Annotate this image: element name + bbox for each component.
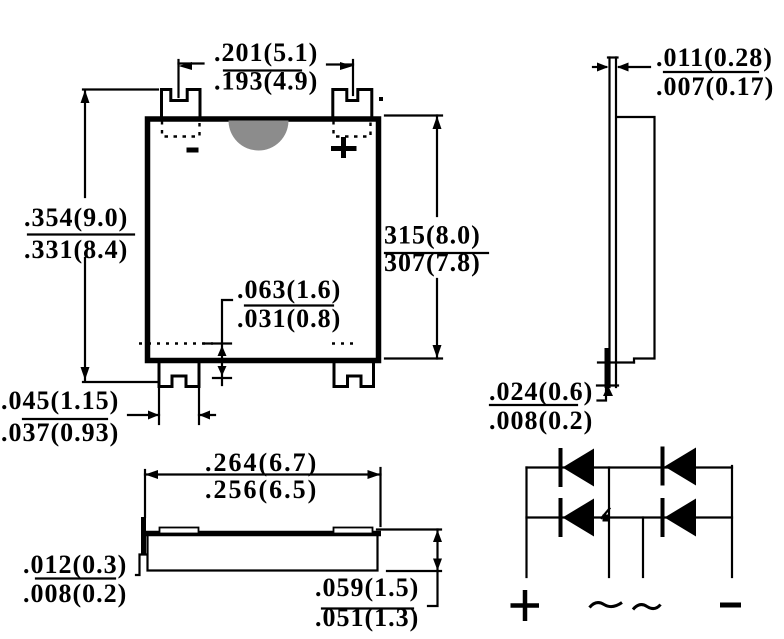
left tab (front view) <box>160 528 199 534</box>
right tab (front view) <box>334 528 373 534</box>
diode D1 triangle <box>563 449 595 487</box>
dim .059/.051 bottom tick <box>387 570 441 572</box>
wire ac node 2 <box>642 518 644 578</box>
ac terminal 1 squiggle <box>590 603 623 608</box>
dim .045/.037 extension lines <box>158 382 160 424</box>
dim 315/307 top tick <box>385 114 442 116</box>
lead foot thick bar <box>605 348 610 388</box>
dim .063/.031 bracket <box>222 300 232 385</box>
diode D3 triangle <box>665 448 697 486</box>
dim .201/.193 extension line left <box>177 60 179 97</box>
lead tab top cap <box>608 56 618 58</box>
hidden dotted line above bottom-right tab <box>332 342 358 344</box>
svg-text:.059(1.5): .059(1.5) <box>315 573 419 602</box>
dim 315/307 bottom tick <box>385 357 442 359</box>
lead tab side profile right line <box>615 58 617 388</box>
pin tab bottom-left <box>159 363 199 387</box>
ac terminal 2 squiggle <box>633 605 661 610</box>
dim .011/.007 left tick and arrow <box>593 66 606 68</box>
molded body (side view) <box>618 117 655 363</box>
wire bottom row <box>527 516 733 518</box>
svg-text:.007(0.17): .007(0.17) <box>656 72 774 101</box>
dim .201/.193 right tick and arrow <box>327 63 353 65</box>
svg-text:.012(0.3): .012(0.3) <box>23 550 127 579</box>
dim .059/.051 top tick <box>377 528 441 530</box>
junction blob <box>603 515 610 522</box>
svg-text:.008(0.2): .008(0.2) <box>23 579 127 608</box>
diode D4 bottom-right cathode bar <box>661 498 665 537</box>
dim .063/.031 tick lower <box>213 377 231 379</box>
pin tab bottom-right <box>334 363 374 387</box>
wire ac node 1 <box>608 468 610 578</box>
dim .063/.031 tick upper <box>204 342 231 344</box>
dim .354/.331 bottom tick <box>83 381 158 383</box>
hidden dotted line above bottom-left tab <box>139 342 213 344</box>
diode D1 top-left cathode bar <box>559 448 563 487</box>
dim .354/.331 vertical line <box>84 90 86 197</box>
hidden pad outline under left tab (dashed) <box>162 121 200 137</box>
dim .264/.256 extension lines <box>144 470 146 517</box>
svg-text:.031(0.8): .031(0.8) <box>237 304 341 333</box>
dim .059/.051 vertical and hook <box>428 530 438 607</box>
minus polarity mark <box>187 148 199 153</box>
wire top row <box>527 466 733 468</box>
svg-text:315(8.0): 315(8.0) <box>384 221 481 250</box>
svg-text:.331(8.4): .331(8.4) <box>24 235 128 264</box>
plus terminal <box>511 603 540 608</box>
wire plus rail <box>525 468 527 578</box>
svg-text:.051(1.3): .051(1.3) <box>315 603 419 632</box>
svg-text:.063(1.6): .063(1.6) <box>237 275 341 304</box>
pin tab top-left <box>162 90 201 118</box>
diode D4 triangle <box>665 499 697 537</box>
dim .354/.331 arrows <box>81 90 90 103</box>
svg-text:.008(0.2): .008(0.2) <box>489 406 593 435</box>
dim .024/.008 tick upper <box>598 361 634 363</box>
svg-text:.354(9.0): .354(9.0) <box>24 203 128 232</box>
polarity notch (gray semicircle) <box>229 121 289 151</box>
dim .063/.031 arrows <box>218 346 227 357</box>
diode D2 triangle <box>563 499 595 537</box>
svg-text:.201(5.1): .201(5.1) <box>214 38 318 67</box>
hidden pad outline under right tab (dashed) <box>334 121 371 137</box>
molded body (front view) <box>148 537 378 571</box>
dim .201/.193 left tick and arrow <box>179 62 204 64</box>
dim .354/.331 top tick <box>83 88 158 90</box>
package body outline (top view) <box>148 119 379 361</box>
svg-text:.037(0.93): .037(0.93) <box>1 418 119 447</box>
plus polarity mark <box>331 146 357 151</box>
dim .045/.037 dimension line and arrows <box>128 414 159 416</box>
svg-text:.045(1.15): .045(1.15) <box>1 386 119 415</box>
diode D3 top-right cathode bar <box>661 447 665 486</box>
dim .201/.193 extension line right <box>352 60 354 95</box>
svg-text:.264(6.7): .264(6.7) <box>205 448 318 477</box>
dim 315/307 arrows <box>433 116 442 129</box>
dim .011/.007 right tick and arrow <box>619 66 650 68</box>
lead frame plate (front view) <box>143 531 381 537</box>
junction jog <box>602 509 610 519</box>
dim 315/307 vertical line <box>436 116 438 217</box>
dim .024/.008 tick lower <box>597 384 618 386</box>
diode D2 bottom-left cathode bar <box>559 498 563 537</box>
dim .264/.256 dimension line <box>145 473 381 475</box>
wire minus rail <box>731 466 733 577</box>
svg-text:.256(6.5): .256(6.5) <box>205 475 318 504</box>
minus terminal <box>720 603 741 608</box>
svg-text:.024(0.6): .024(0.6) <box>489 377 593 406</box>
lead tab side profile left line <box>608 58 610 388</box>
plate left end bar <box>141 517 146 555</box>
dim .024/.008 leader hook <box>598 386 607 401</box>
pin tab top-right <box>333 90 372 118</box>
dim .012/.008 bracket <box>136 555 147 576</box>
stray scan dot <box>379 97 383 101</box>
svg-text:.011(0.28): .011(0.28) <box>656 43 773 72</box>
